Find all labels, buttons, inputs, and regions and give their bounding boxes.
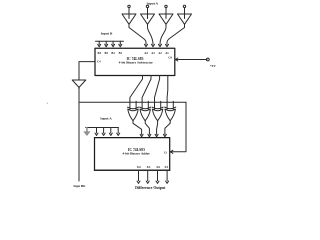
terminal circle A2	[165, 5, 167, 7]
terminal circle A1	[183, 5, 185, 7]
svg-text:4-bit Binary Subtractor: 4-bit Binary Subtractor	[119, 60, 154, 64]
svg-text:Σ4: Σ4	[137, 165, 141, 169]
IC1 74LS83 subtractor box	[95, 48, 175, 75]
svg-text:Difference Output: Difference Output	[135, 186, 166, 190]
wire buffer A4 to pin A4	[129, 24, 146, 44]
wire buffer A3 to pin A3	[148, 24, 154, 44]
wire arrow A3 (lower)	[103, 128, 105, 134]
output arrow S2	[157, 170, 159, 181]
buffer A4	[122, 8, 136, 25]
svg-text:Ci: Ci	[164, 150, 167, 154]
wire arrow B4	[98, 41, 100, 44]
wire XOR4 out to IC2	[165, 121, 170, 135]
wire arrow B1	[119, 41, 121, 44]
wire to carry-in Ci	[171, 102, 186, 152]
svg-text:A2: A2	[158, 51, 162, 55]
node branch line to XOR second inputs	[79, 101, 186, 103]
wire buffer A1 to pin A1	[167, 24, 185, 44]
svg-text:Σ3: Σ3	[147, 165, 151, 169]
wire XOR2 out to IC2	[145, 121, 149, 135]
wire arrow A2 (lower)	[110, 128, 112, 134]
terminal circle A4	[128, 5, 130, 7]
wire arrow A1 (lower)	[117, 128, 119, 134]
+5V supply wire into C0	[176, 59, 207, 61]
XOR gate U2A	[127, 101, 138, 121]
wire arrow B2	[112, 41, 114, 44]
IC2 bottom edge emphasis	[95, 169, 170, 171]
svg-text:Σ1: Σ1	[165, 165, 169, 169]
wire buffer A2 to pin A2	[160, 24, 166, 44]
svg-text:A3: A3	[151, 51, 155, 55]
XOR gate U2B	[140, 101, 151, 121]
wire inverter to sign bit	[78, 89, 80, 181]
output arrow S4	[138, 170, 140, 181]
svg-text:A1: A1	[165, 51, 169, 55]
svg-text:C0: C0	[168, 56, 172, 60]
svg-text:B1: B1	[119, 51, 123, 55]
+5V terminal circle	[206, 58, 209, 61]
input A bus line	[86, 127, 119, 129]
inverter output dot	[78, 87, 80, 89]
XOR gate U2D	[165, 101, 176, 121]
inverter U3	[72, 80, 86, 87]
wire arrow A4 (lower)	[96, 128, 98, 134]
input B bus line	[96, 40, 124, 42]
terminal circle A3	[146, 5, 148, 7]
wire XOR3 out to IC2	[157, 121, 158, 135]
output arrow S1	[166, 170, 168, 181]
wire XOR1 out to IC2	[133, 121, 142, 135]
output arrow S3	[147, 170, 149, 181]
svg-text:B4: B4	[98, 51, 102, 55]
svg-text:4-bit Binary Adder: 4-bit Binary Adder	[122, 152, 150, 156]
buffer A1	[178, 8, 192, 25]
wire C4 to inverter	[79, 62, 95, 80]
svg-text:Input B: Input B	[101, 32, 113, 36]
buffer A2	[159, 8, 173, 25]
svg-text:Σ2: Σ2	[156, 165, 160, 169]
wire IC1 S3 to XOR	[142, 76, 151, 102]
svg-text:A4: A4	[144, 51, 148, 55]
wire IC1 S1 to XOR	[166, 76, 169, 102]
svg-text:+5V: +5V	[210, 64, 217, 68]
svg-text:Input A: Input A	[100, 117, 112, 121]
svg-text:B3: B3	[105, 51, 109, 55]
IC2 74LS83 adder box	[95, 138, 170, 171]
gray source arrow	[86, 128, 88, 132]
stray dot artifact	[47, 103, 48, 104]
wire IC1 S4 to XOR	[130, 76, 143, 102]
wire IC1 S2 to XOR	[155, 76, 160, 102]
wire arrow B3	[105, 41, 107, 44]
svg-text:Input A: Input A	[147, 1, 159, 5]
svg-text:C4: C4	[97, 60, 101, 64]
XOR gate U2C	[152, 101, 163, 121]
svg-text:Sign Bit: Sign Bit	[73, 184, 86, 188]
buffer A3	[141, 8, 155, 25]
svg-text:B2: B2	[111, 51, 115, 55]
